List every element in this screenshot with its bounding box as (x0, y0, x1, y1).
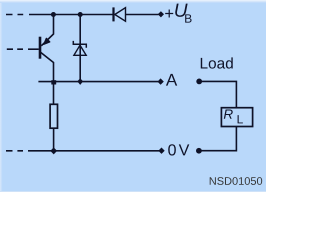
left edge light fringe (0, 3, 3, 192)
zener diode Z1 triangle (74, 45, 86, 55)
label Load (201, 57, 233, 68)
wire: load branch top (199, 81, 236, 107)
wire: load branch bottom (199, 127, 236, 151)
node: zener/A-line junction (77, 78, 83, 85)
wire: A line (38, 81, 158, 83)
label 0 V (168, 144, 176, 155)
node: top rail junction at emitter (51, 12, 56, 17)
label NSD01050 (210, 177, 262, 185)
diode D1 triangle (115, 8, 126, 22)
label A (166, 74, 177, 86)
transistor Q1 base bar (39, 37, 42, 59)
node: A terminal dot (157, 78, 163, 84)
wire: collector down from transistor (40, 52, 54, 105)
wire: top rail diode to +UB terminal (126, 14, 159, 16)
node: +UB terminal dot (158, 11, 164, 17)
wire: top rail dashed stub (6, 14, 23, 16)
node: 0V/resistor junction (50, 147, 57, 154)
top edge light fringe (0, 0, 266, 3)
label RL (224, 110, 243, 124)
node: collector/A-line junction (51, 80, 56, 84)
load resistor RL box (221, 108, 252, 127)
wire: 0V dashed stub (6, 150, 23, 152)
zener diode Z1 cathode bar with hooks (73, 41, 86, 48)
node: top rail junction at zener (78, 12, 83, 17)
resistor R1 (50, 104, 57, 128)
wire: 0V solid line (28, 150, 159, 152)
wire: base lead dashed stub (7, 48, 23, 50)
node: load bottom dot (196, 148, 202, 154)
transistor Q1 emitter arrow (PNP) (44, 38, 50, 44)
node: 0V terminal dot (158, 148, 164, 154)
bottom edge light fringe (0, 191, 266, 192)
label +UB (165, 4, 191, 23)
wire: base lead solid (28, 48, 39, 50)
node: load top dot (196, 79, 202, 85)
diode D1 cathode bar (112, 7, 114, 21)
wire: emitter to top rail (41, 15, 53, 46)
wire: zener vertical (79, 15, 81, 82)
wire: resistor bottom lead (53, 128, 55, 151)
wire: top rail solid left of diode (29, 14, 113, 16)
